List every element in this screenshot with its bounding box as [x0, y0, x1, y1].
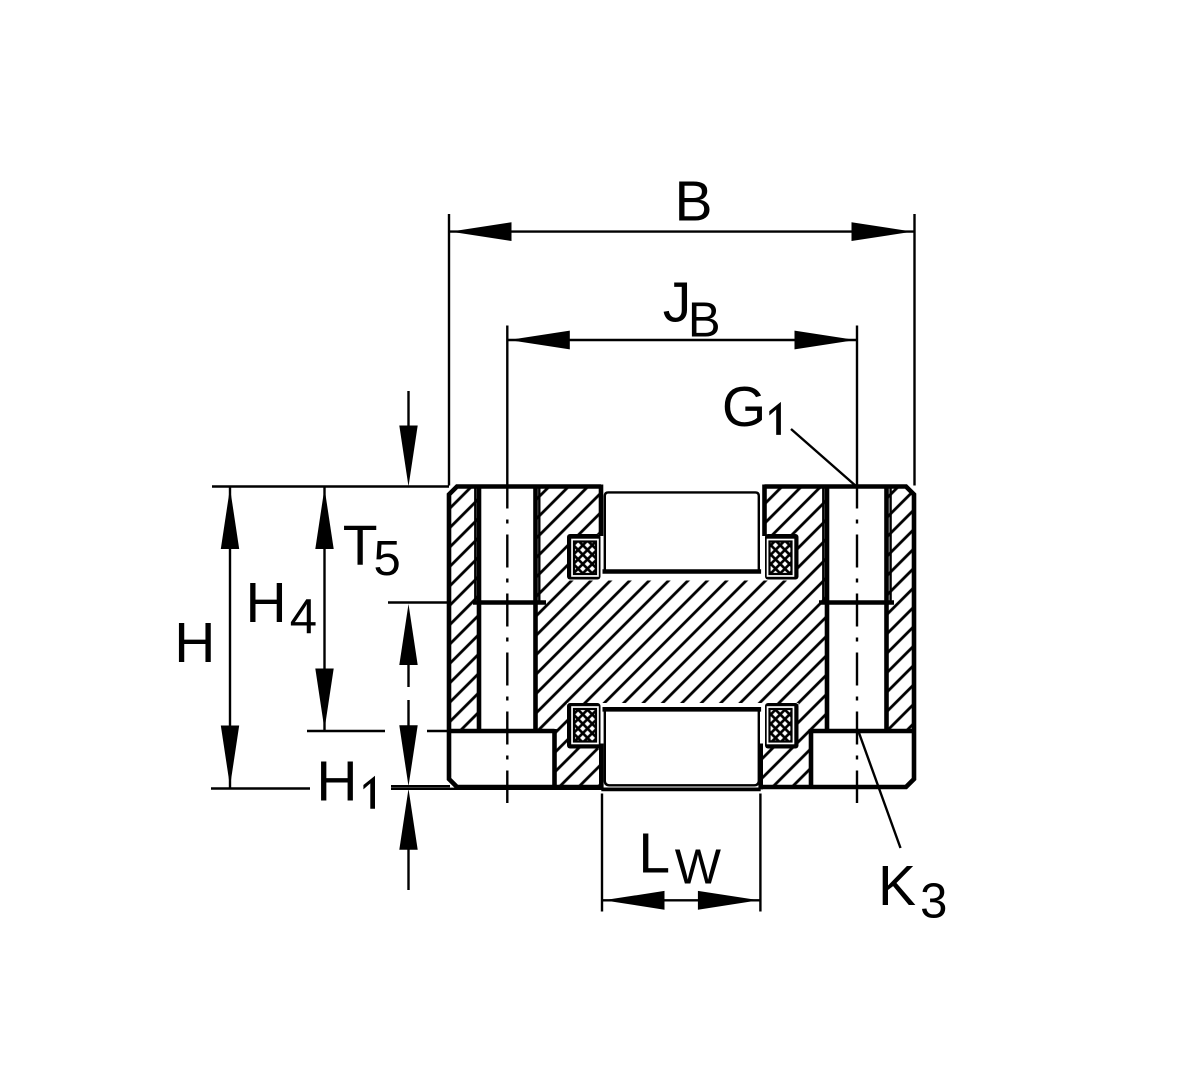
- dimension LW line with arrowheads: [602, 891, 760, 910]
- svg-text:G: G: [722, 375, 766, 439]
- left bolt hole bore opening: [479, 487, 536, 732]
- dimension T5 extension line: [388, 601, 449, 603]
- left bolt hole centerline: [506, 326, 508, 804]
- top guide rail cross-section: [603, 492, 762, 571]
- bottom recess walls: [601, 744, 760, 790]
- label LW: [638, 822, 721, 895]
- bottom shaft recess opening: [601, 709, 760, 791]
- dimension T5 upper arrow: [399, 391, 417, 487]
- right foot relief cutout: [811, 731, 914, 787]
- svg-text:H: H: [246, 571, 287, 635]
- left foot relief cutout: [449, 731, 555, 787]
- label K3: [878, 854, 947, 929]
- top-left wiper seal: [567, 534, 601, 580]
- bottom-right wiper seal: [765, 703, 799, 749]
- right bolt hole counterbore step: [819, 600, 894, 605]
- left bolt hole thread bore walls: [479, 487, 536, 732]
- bottom-left wiper seal: [567, 703, 601, 749]
- svg-text:T: T: [343, 513, 378, 577]
- top-right wiper seal: [765, 534, 799, 580]
- svg-text:W: W: [675, 840, 722, 894]
- left bolt hole thread major lines: [475, 487, 539, 603]
- svg-text:L: L: [638, 822, 670, 886]
- housing body hatched section: [449, 487, 914, 788]
- G1 leader line: [791, 429, 857, 487]
- bottom guide rail cross-section: [601, 709, 761, 789]
- svg-text:H: H: [174, 611, 215, 675]
- svg-text:H: H: [316, 749, 357, 813]
- dimension H1 upper arrow: [399, 700, 417, 786]
- dimension H bottom extension line: [211, 787, 310, 789]
- dimension H1 lower arrow: [399, 789, 417, 890]
- svg-text:4: 4: [290, 590, 317, 644]
- top shaft recess opening: [601, 484, 765, 572]
- left foot cutout outline: [449, 729, 555, 787]
- dimension T5 lower arrow: [399, 604, 417, 687]
- right bolt hole thread bore walls: [827, 487, 887, 732]
- label H1: [316, 749, 375, 813]
- housing body outline: [449, 487, 914, 788]
- right bolt hole centerline: [856, 326, 858, 804]
- label G1: [722, 375, 781, 439]
- label JB: [663, 270, 721, 347]
- svg-text:3: 3: [920, 875, 947, 929]
- svg-text:5: 5: [374, 532, 401, 586]
- right bolt hole thread major lines: [823, 487, 890, 603]
- top recess walls: [601, 485, 765, 537]
- dimension LW extension lines: [602, 794, 760, 912]
- dimension H1 extension lines: [391, 786, 604, 789]
- svg-text:K: K: [878, 854, 916, 918]
- right foot cutout outline: [811, 729, 914, 787]
- dimension H line with arrowheads: [221, 487, 239, 788]
- dimension B extension lines: [449, 214, 915, 486]
- right bolt hole bore opening: [827, 487, 887, 732]
- dimension H top extension line: [212, 485, 449, 487]
- label H4: [246, 571, 317, 644]
- svg-text:B: B: [675, 170, 713, 234]
- dimension JB line with arrowheads: [507, 331, 857, 350]
- dimension H4 bottom extension line: [307, 730, 452, 732]
- svg-text:B: B: [688, 294, 721, 348]
- left bolt hole counterbore step: [473, 600, 546, 605]
- K3 leader line: [859, 732, 901, 849]
- label T5: [343, 513, 401, 585]
- dimension H4 line with arrowheads: [315, 487, 333, 732]
- dimension B line with arrowheads: [449, 222, 914, 241]
